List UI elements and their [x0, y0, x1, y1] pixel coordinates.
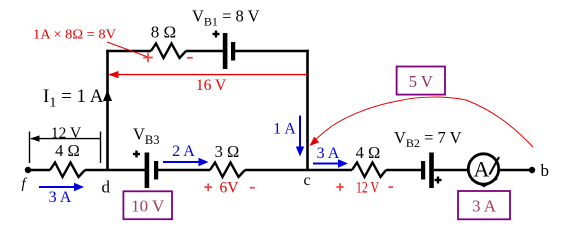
svg-text:8 Ω: 8 Ω — [151, 23, 176, 42]
resistor 3 ohm zigzag — [210, 163, 245, 178]
wire f to resistor 4ohm — [28, 169, 50, 172]
label 4 Ω (right) — [356, 143, 381, 162]
ammeter bottom chords — [472, 179, 498, 187]
blue arrow 3A at c — [313, 159, 348, 167]
wire battery VB2 to ammeter — [434, 169, 469, 172]
red plus 6V minus — [204, 179, 254, 196]
wire resistor 3ohm to resistor 4ohm right (through node c) — [245, 169, 352, 172]
blue arrow 2A — [163, 158, 209, 166]
battery VB3 plates — [145, 153, 159, 189]
svg-text:3 A: 3 A — [317, 145, 340, 162]
red arc from b to c — [310, 97, 534, 147]
node c label — [304, 172, 311, 189]
wire battery VB3 to resistor 3ohm — [158, 169, 210, 172]
wire resistor 4ohm-right to battery VB2 — [386, 169, 421, 172]
red plus 12V minus — [336, 180, 393, 197]
wire resistor R1 to battery VB1 — [186, 50, 223, 53]
label 3 A blue (left) — [49, 189, 72, 206]
node b label — [541, 161, 550, 180]
dimension 12V right tick — [100, 132, 102, 164]
red callout line to resistor plus — [107, 42, 148, 57]
battery VB2 plus sign — [435, 177, 442, 184]
ammeter letter A — [474, 157, 490, 182]
resistor 4 ohm (left) zigzag — [50, 163, 85, 178]
svg-text:12 V: 12 V — [51, 125, 82, 142]
svg-text:4 Ω: 4 Ω — [55, 141, 80, 160]
wire left vertical (d to top-left corner) — [106, 50, 109, 170]
wire battery VB1 to top-right corner — [235, 50, 309, 53]
red plus at resistor R1 left — [143, 53, 153, 63]
ammeter needle — [490, 157, 500, 175]
label VB3 — [133, 125, 160, 148]
wire resistor 4ohm to battery VB3 (through node d) — [85, 169, 145, 172]
label 8 ohm — [151, 23, 176, 42]
current I1 up arrowhead on left vertical wire — [103, 90, 112, 101]
svg-text:c: c — [304, 172, 311, 189]
label 3 A box at ammeter — [458, 191, 510, 219]
label 12 V — [51, 125, 82, 142]
red minus at resistor R1 right — [187, 57, 193, 59]
wire right vertical (top-right corner down to c) — [306, 50, 309, 170]
battery VB3 plus sign — [133, 151, 140, 158]
red annotation 1A x 8ohm = 8V — [33, 27, 116, 42]
svg-text:12 V: 12 V — [356, 180, 380, 197]
resistor 4 ohm (right) zigzag — [352, 163, 386, 178]
blue arrow 3A at f — [39, 183, 84, 191]
svg-text:10 V: 10 V — [131, 197, 165, 216]
ammeter A circle — [468, 154, 498, 184]
red 16V arrow line — [108, 71, 307, 78]
label VB2 = 7 V — [394, 128, 462, 150]
blue arrow 1A down at c — [296, 116, 304, 157]
battery VB1 plus sign — [213, 31, 220, 38]
svg-text:VB1 = 8 V: VB1 = 8 V — [192, 7, 260, 29]
svg-text:2 A: 2 A — [172, 143, 195, 160]
svg-text:b: b — [541, 161, 550, 180]
label 2 A blue — [172, 143, 195, 160]
node b dot — [529, 167, 535, 173]
svg-text:6V: 6V — [220, 179, 240, 196]
battery VB2 plates — [421, 153, 434, 189]
label 1 A blue — [273, 121, 296, 138]
battery VB1 plates — [223, 33, 235, 69]
svg-text:3 Ω: 3 Ω — [215, 142, 240, 161]
svg-text:1 A: 1 A — [273, 121, 296, 138]
label 5 V box — [397, 67, 445, 95]
label I1 = 1 A — [43, 86, 104, 111]
label 2A/VB3 region label 10 V box — [123, 191, 172, 219]
dimension 12V left tick — [29, 132, 31, 164]
svg-text:5 V: 5 V — [409, 72, 433, 91]
svg-text:d: d — [102, 178, 111, 197]
svg-text:VB2 = 7 V: VB2 = 7 V — [394, 128, 462, 150]
node d label — [102, 178, 111, 197]
svg-text:1A × 8Ω = 8V: 1A × 8Ω = 8V — [33, 27, 116, 42]
svg-text:4 Ω: 4 Ω — [356, 143, 381, 162]
svg-text:A: A — [474, 157, 490, 182]
label VB1 = 8 V — [192, 7, 260, 29]
svg-text:3 A: 3 A — [472, 197, 497, 216]
label 16 V red — [196, 77, 227, 94]
wire top segment from corner to resistor R1 — [106, 50, 151, 53]
label 3 Ω — [215, 142, 240, 161]
node f label — [22, 176, 28, 192]
label 3 A blue (right of c) — [317, 145, 340, 162]
node f dot — [25, 167, 31, 173]
svg-text:3 A: 3 A — [49, 189, 72, 206]
resistor R1 8 ohm zigzag — [151, 44, 186, 59]
wire ammeter to node b — [499, 169, 532, 172]
dimension 12V line with left arrowhead — [30, 135, 100, 141]
label 4 ohm (left) — [55, 141, 80, 160]
svg-text:16 V: 16 V — [196, 77, 227, 94]
